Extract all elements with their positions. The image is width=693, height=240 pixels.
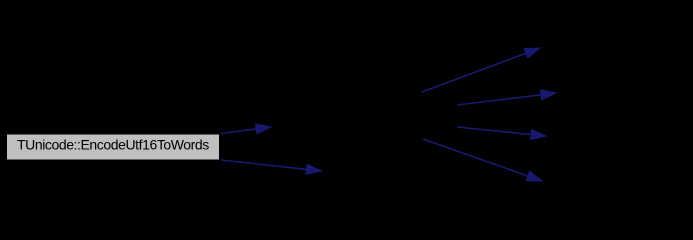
svg-text:TUnicode::EncodeUtf16ToWords: TUnicode::EncodeUtf16ToWords <box>17 137 209 153</box>
